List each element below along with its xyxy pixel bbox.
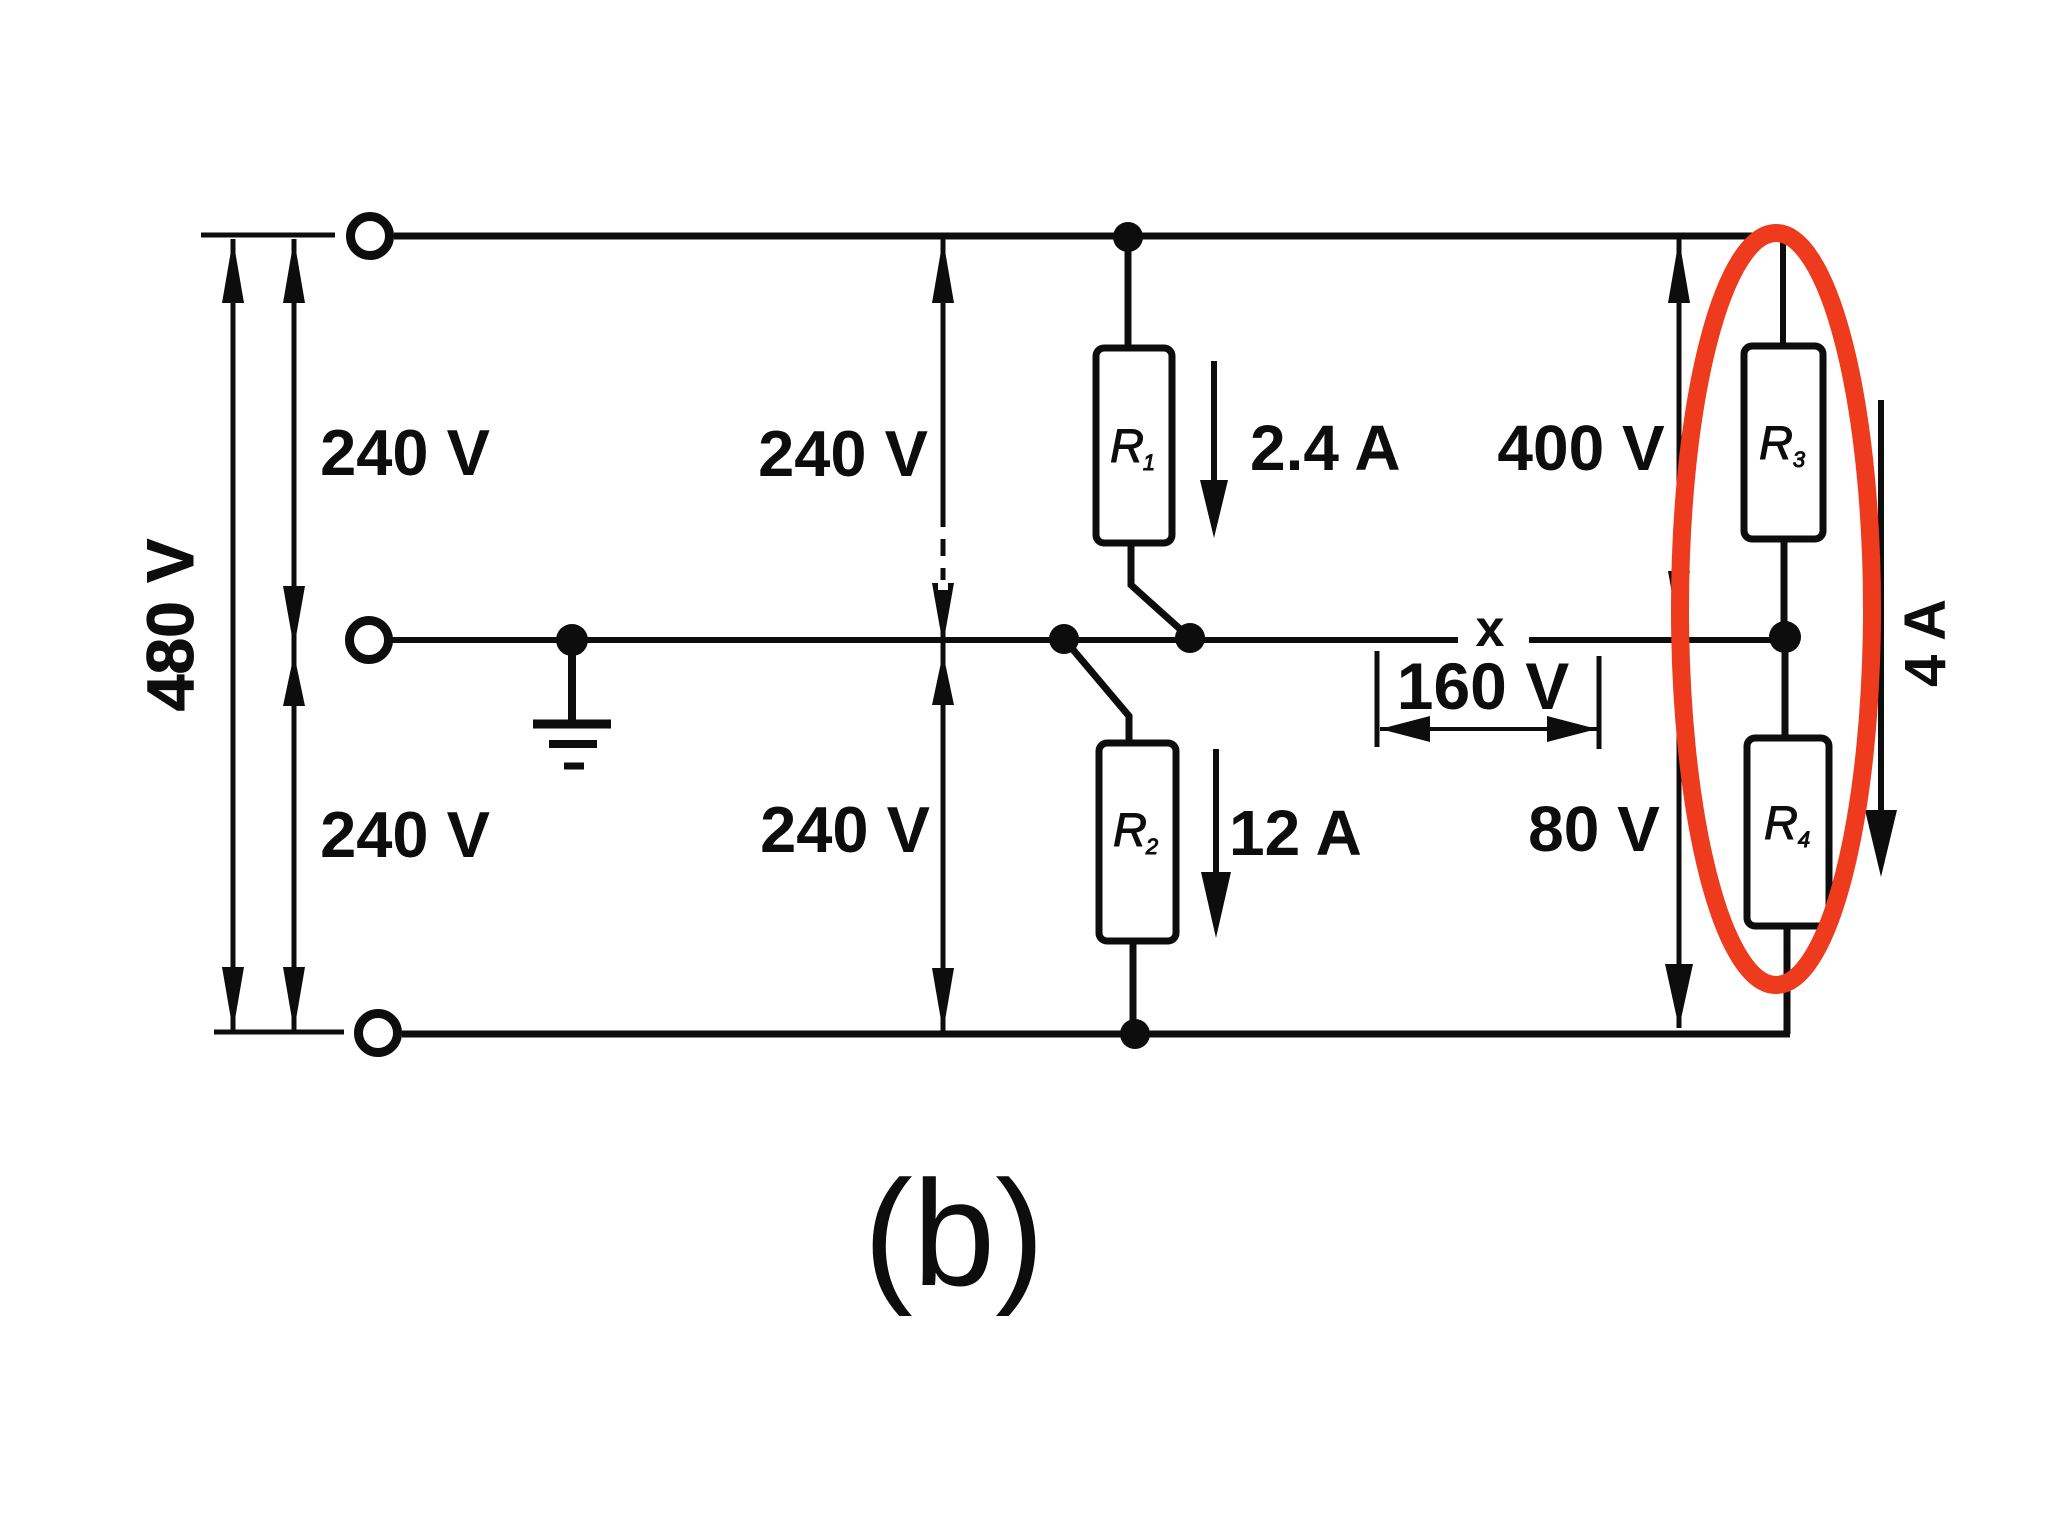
- resistor R4: [1747, 738, 1829, 926]
- wire R3 to node: [1781, 539, 1788, 637]
- resistor R2: [1099, 743, 1176, 941]
- terminal middle: [350, 621, 389, 660]
- terminal bottom: [359, 1014, 398, 1053]
- terminal top: [351, 217, 390, 256]
- svg-text:4 A: 4 A: [1893, 599, 1958, 687]
- svg-text:240 V: 240 V: [758, 417, 928, 490]
- svg-text:400 V: 400 V: [1497, 412, 1665, 484]
- middle wire right segment: [1529, 637, 1788, 643]
- svg-text:3: 3: [1793, 447, 1806, 472]
- wire R4 to bottom: [1784, 926, 1791, 1034]
- resistor R1: [1096, 348, 1172, 543]
- middle wire left segment: [392, 637, 1458, 643]
- wire top to R3: [1780, 236, 1786, 348]
- svg-text:R: R: [1110, 419, 1144, 472]
- svg-text:R: R: [1764, 796, 1798, 849]
- 240 V middle dimension line: [941, 239, 946, 1032]
- red highlight ellipse: [1680, 233, 1872, 985]
- current arrow 12 A: [1213, 749, 1219, 880]
- node: R1 to neutral: [1175, 623, 1205, 653]
- ground: [568, 640, 576, 722]
- svg-text:12 A: 12 A: [1229, 797, 1362, 869]
- resistor R3: [1744, 346, 1823, 539]
- bottom-left dimension extension tick: [214, 1030, 344, 1035]
- svg-text:80 V: 80 V: [1528, 793, 1660, 865]
- top wire: [394, 233, 1783, 240]
- top-left dimension extension tick: [201, 233, 335, 238]
- svg-text:240 V: 240 V: [760, 793, 930, 866]
- bottom wire: [402, 1031, 1790, 1038]
- 400 V / 80 V dimension line: [1677, 239, 1682, 1028]
- current arrow 2.4 A: [1211, 361, 1217, 492]
- svg-text:R: R: [1759, 416, 1793, 469]
- svg-text:4: 4: [1798, 827, 1810, 852]
- svg-text:160 V: 160 V: [1397, 649, 1569, 723]
- svg-text:240 V: 240 V: [320, 416, 490, 489]
- svg-text:240 V: 240 V: [320, 798, 490, 871]
- current arrow 4 A: [1878, 400, 1884, 815]
- svg-text:R: R: [1113, 803, 1147, 856]
- wire R2 to bottom: [1130, 941, 1137, 1034]
- svg-text:2.4 A: 2.4 A: [1250, 412, 1401, 484]
- 480 V dimension line: [231, 239, 236, 1031]
- svg-text:480 V: 480 V: [133, 539, 207, 711]
- svg-text:(b): (b): [864, 1149, 1045, 1317]
- svg-text:2: 2: [1145, 834, 1158, 859]
- node: R3-R4 midpoint: [1769, 621, 1801, 653]
- wire R1 to middle: [1131, 543, 1190, 638]
- node: top wire to R1: [1113, 222, 1143, 252]
- wire top to R1: [1125, 237, 1132, 350]
- node: neutral-ground junction: [556, 624, 588, 656]
- 240 V left dimension line: [292, 239, 297, 1031]
- svg-text:1: 1: [1143, 450, 1155, 475]
- 160 V dimension bracket: [1375, 651, 1380, 747]
- node: neutral to R2: [1049, 624, 1079, 654]
- wire node to R4: [1782, 637, 1789, 740]
- node: R2 to bottom wire: [1120, 1019, 1150, 1049]
- wire neutral to R2: [1064, 639, 1129, 745]
